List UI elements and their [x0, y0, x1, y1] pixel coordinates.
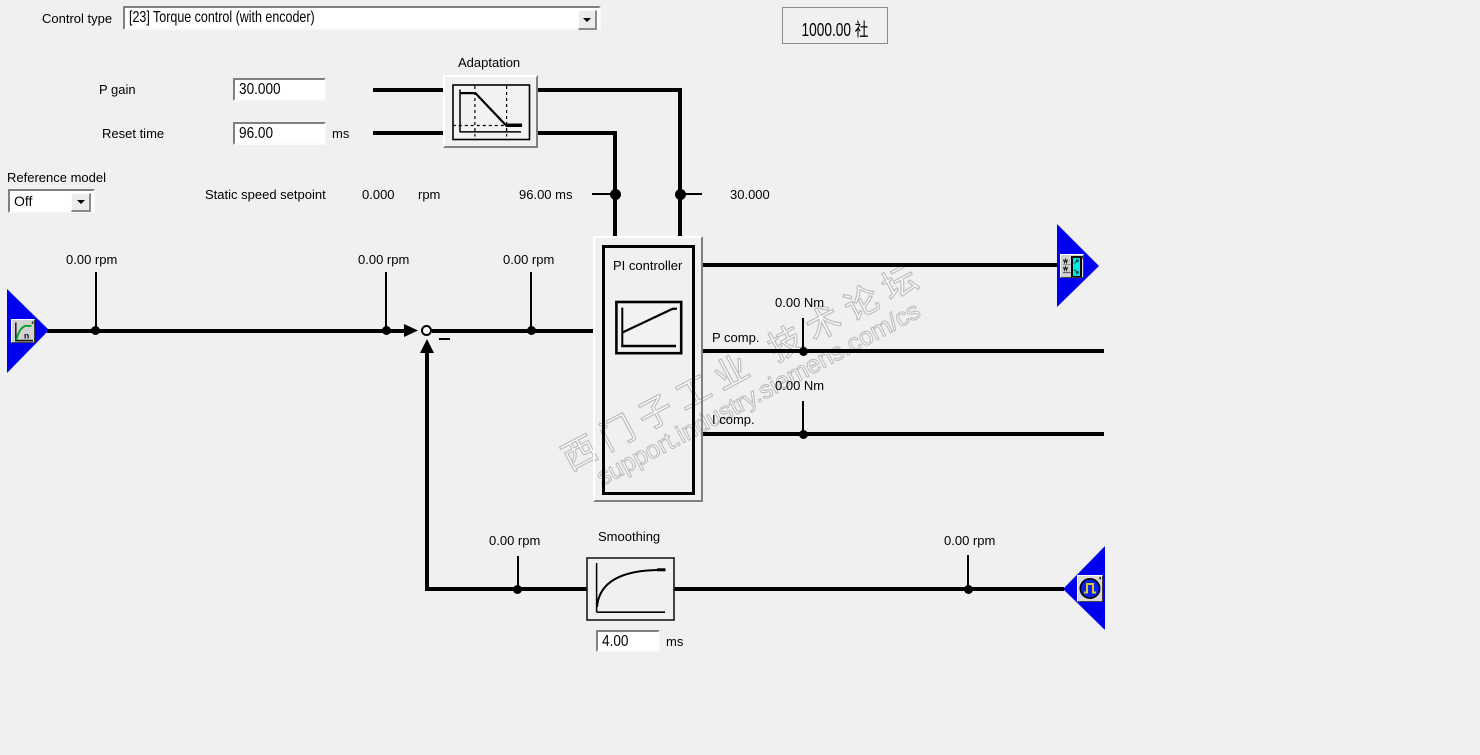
wire resettime to adaptation: [373, 131, 443, 135]
feedback vertical wire: [425, 353, 429, 591]
output triangle top right: [1056, 224, 1100, 308]
0.00 rpm label 1: [66, 253, 117, 267]
wire adaptation right bottom: [538, 131, 617, 135]
junction dot 30: [675, 189, 686, 200]
wire sum to PI: [432, 329, 593, 333]
0.00 rpm label bottom 2: [944, 534, 995, 548]
0.000 label: [362, 188, 395, 202]
0.00 Nm label 2: [775, 379, 824, 393]
Reference model combobox: [8, 189, 95, 213]
I comp label: [712, 413, 755, 427]
junction dot 96ms: [610, 189, 621, 200]
tick left of x615: [592, 193, 611, 195]
0.00 rpm label 3: [503, 253, 554, 267]
P comp label: [712, 331, 759, 345]
wire P comp: [703, 349, 1104, 353]
torque icon: [1060, 254, 1084, 278]
wire pgain to adaptation: [373, 88, 443, 92]
input triangle: [6, 288, 50, 374]
control type label: [42, 12, 112, 26]
dot main 2: [382, 326, 391, 335]
0.00 Nm label 1: [775, 296, 824, 310]
arrow into sum: [404, 324, 419, 337]
watermark: [749, 377, 751, 379]
Reset time label: [102, 127, 164, 141]
Adaptation graph: [452, 84, 532, 141]
rpm label: [418, 188, 440, 202]
readout box 1000.00: [782, 7, 888, 44]
dot bottom 2: [964, 585, 973, 594]
wire I comp: [703, 432, 1104, 436]
dot main 1: [91, 326, 100, 335]
wire vertical x680: [678, 88, 682, 236]
thin vert bottom 2: [967, 555, 969, 588]
dot I comp: [799, 430, 808, 439]
thin vert 1: [95, 272, 97, 330]
ms label smoothing: [666, 635, 683, 649]
input icon n: [11, 319, 35, 343]
tick right of x680: [685, 193, 702, 195]
feedback bottom wire: [425, 587, 587, 591]
dot P comp: [799, 347, 808, 356]
wire smoothing to right: [674, 587, 1064, 591]
pulse icon: [1077, 575, 1103, 602]
smoothing field 4.00: [596, 630, 660, 652]
PI controller panel: [593, 236, 703, 502]
30.000 label: [730, 188, 770, 202]
output triangle bottom right: [1063, 546, 1106, 631]
Smoothing label: [598, 530, 660, 544]
feedback up arrow: [420, 339, 434, 353]
Adaptation label: [458, 56, 520, 70]
P gain label: [99, 83, 136, 97]
thin vert bottom 1: [517, 556, 519, 588]
0.00 rpm label 2: [358, 253, 409, 267]
control type combobox: [123, 6, 601, 30]
thin vert P comp: [802, 318, 804, 349]
dot bottom 1: [513, 585, 522, 594]
thin vert I comp: [802, 401, 804, 434]
PI controller label: [613, 259, 682, 273]
PI icon: [615, 300, 683, 355]
0.00 rpm label bottom 1: [489, 534, 540, 548]
svg-text:n: n: [24, 331, 29, 341]
main wire left: [47, 329, 405, 333]
thin vert 2: [385, 272, 387, 330]
ms label: [332, 127, 349, 141]
wire PI top output: [703, 263, 1057, 267]
Reset time field: [233, 122, 326, 145]
Static speed setpoint label: [205, 188, 326, 202]
P gain field: [233, 78, 326, 101]
PI controller black rect: [602, 245, 695, 495]
Smoothing box: [586, 557, 675, 621]
Adaptation panel: [443, 75, 538, 148]
wire adaptation right top: [538, 88, 682, 92]
dot main 3: [527, 326, 536, 335]
minus sign: [439, 338, 450, 340]
Reference model label: [7, 171, 106, 185]
96.00 ms label: [519, 188, 572, 202]
sum circle: [421, 325, 432, 336]
thin vert 3: [530, 272, 532, 330]
wire vertical x615: [613, 131, 617, 236]
